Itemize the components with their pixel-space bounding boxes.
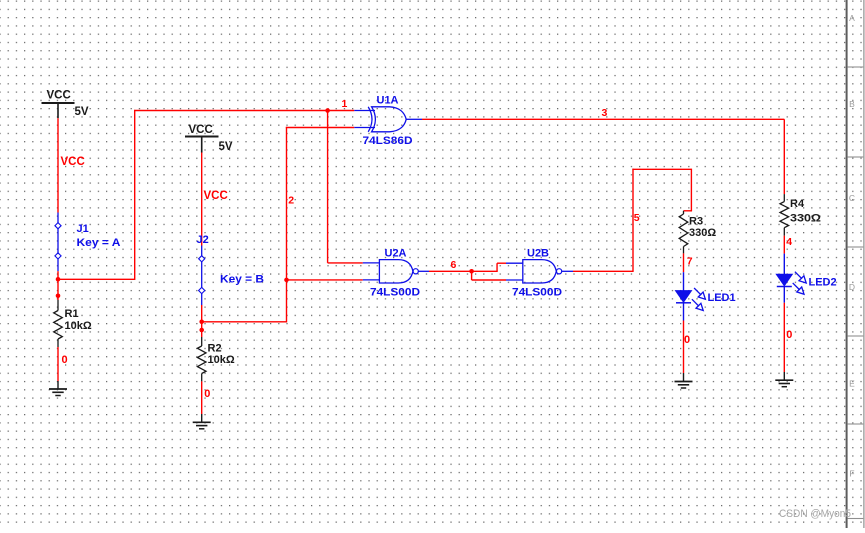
svg-text:LED1: LED1 xyxy=(708,292,736,304)
svg-text:74LS00D: 74LS00D xyxy=(512,287,562,299)
svg-text:Key = A: Key = A xyxy=(77,237,121,249)
svg-text:2: 2 xyxy=(288,195,294,207)
wire J2 to node B xyxy=(201,305,203,337)
node B junction (net 2 tap) xyxy=(199,320,204,325)
wire net3 vertical down to R4 xyxy=(783,119,785,194)
svg-text:U2A: U2A xyxy=(385,248,407,260)
wire VCC V1 to switch J1 xyxy=(57,118,59,212)
wire net1 top horizontal to U1A input xyxy=(134,110,354,112)
wire net6 drop to U2B bottom input xyxy=(471,271,473,280)
svg-text:U1A: U1A xyxy=(377,94,399,106)
svg-text:0: 0 xyxy=(786,329,792,341)
svg-text:J2: J2 xyxy=(197,234,209,246)
wire net6 from U2A output xyxy=(429,270,498,272)
svg-text:0: 0 xyxy=(684,334,690,346)
svg-text:R4: R4 xyxy=(790,198,805,210)
node A junction (net 1 tap) xyxy=(56,277,61,282)
LED LED2 xyxy=(776,254,806,303)
svg-text:5: 5 xyxy=(634,212,640,224)
svg-text:1: 1 xyxy=(342,98,348,110)
resistor R1 xyxy=(54,300,63,347)
svg-text:3: 3 xyxy=(602,107,608,119)
wire net4 R4 to LED2 xyxy=(783,236,785,254)
wire net5 jog into R3 xyxy=(684,210,693,212)
svg-text:R1: R1 xyxy=(65,308,79,320)
svg-text:D: D xyxy=(849,282,855,292)
svg-text:6: 6 xyxy=(451,259,457,271)
resistor R4 xyxy=(780,194,789,236)
svg-text:VCC: VCC xyxy=(47,90,71,102)
power symbol VCC V1 xyxy=(42,90,75,119)
wire net5 down to R3 xyxy=(690,169,692,211)
resistor R3 xyxy=(679,211,688,254)
power symbol VCC V2 xyxy=(185,124,219,153)
wire net1 horizontal from J1 node xyxy=(58,278,135,280)
svg-text:5V: 5V xyxy=(75,106,89,118)
svg-text:0: 0 xyxy=(204,388,210,400)
svg-text:10kΩ: 10kΩ xyxy=(65,320,92,332)
wire R1 to ground (net 0) xyxy=(57,347,59,381)
wire VCC V2 to switch J2 xyxy=(201,153,203,246)
svg-text:10kΩ: 10kΩ xyxy=(208,354,235,366)
svg-text:5V: 5V xyxy=(219,141,233,153)
svg-text:VCC: VCC xyxy=(61,156,85,168)
svg-text:F: F xyxy=(849,469,854,479)
wire net2 to U2A bottom input xyxy=(287,279,363,281)
wire net6 step up to U2B top input xyxy=(496,263,498,271)
ground below LED2 xyxy=(775,372,793,387)
svg-text:U2B: U2B xyxy=(527,248,549,260)
switch J2 xyxy=(199,246,205,306)
ground below R1 xyxy=(49,381,67,396)
op XOR gate U1A 74LS86D xyxy=(354,107,422,132)
wire net1 vertical riser xyxy=(134,110,136,280)
wire net2 top horizontal to U1A lower input xyxy=(286,127,354,129)
svg-text:330Ω: 330Ω xyxy=(689,227,716,239)
svg-text:R3: R3 xyxy=(689,216,703,228)
node junction above R1 xyxy=(56,294,61,299)
node junction net1 to U2A branch xyxy=(325,108,330,113)
node junction above R2 xyxy=(199,328,204,333)
svg-text:74LS86D: 74LS86D xyxy=(363,135,413,147)
LED LED1 xyxy=(676,272,706,320)
svg-text:LED2: LED2 xyxy=(809,277,837,289)
sheet border row letters xyxy=(849,13,855,479)
wire net7 R3 to LED1 xyxy=(683,253,685,272)
node junction net6 xyxy=(469,269,474,274)
switch J1 xyxy=(55,213,61,272)
wire net5 from U2B output xyxy=(573,270,633,272)
svg-text:CSDN @Myon5: CSDN @Myon5 xyxy=(779,508,851,520)
svg-text:4: 4 xyxy=(786,236,792,248)
svg-text:VCC: VCC xyxy=(204,190,228,202)
ground below R2 xyxy=(193,414,211,429)
wire J1 to node A xyxy=(57,271,59,300)
node junction net2 to U2A branch xyxy=(284,278,289,283)
svg-text:C: C xyxy=(849,193,855,203)
sheet border right strip xyxy=(846,0,865,528)
wire R2 to ground (net 0) xyxy=(201,381,203,414)
wire net2 horizontal from J2 node xyxy=(202,321,287,323)
wire net5 vertical up xyxy=(632,169,634,272)
svg-text:7: 7 xyxy=(687,256,693,268)
svg-text:VCC: VCC xyxy=(189,124,213,136)
svg-text:A: A xyxy=(849,13,855,23)
wire LED1 to ground xyxy=(683,321,685,374)
svg-text:74LS00D: 74LS00D xyxy=(370,287,420,299)
resistor R2 xyxy=(197,337,206,381)
wire net2 vertical riser xyxy=(286,127,288,323)
svg-text:B: B xyxy=(849,99,855,109)
wire LED2 to ground xyxy=(783,303,785,372)
NAND gate U2B 74LS00D xyxy=(506,260,573,283)
wire net3 horizontal xyxy=(422,118,784,120)
svg-text:0: 0 xyxy=(62,354,68,366)
svg-text:J1: J1 xyxy=(77,223,89,235)
svg-text:330Ω: 330Ω xyxy=(790,212,821,224)
svg-text:Key = B: Key = B xyxy=(220,274,264,286)
wire net5 top horizontal xyxy=(632,168,691,170)
svg-text:E: E xyxy=(849,379,855,389)
wire net1 drop to U2A top input xyxy=(327,111,329,263)
NAND gate U2A 74LS00D xyxy=(363,260,429,283)
svg-text:R2: R2 xyxy=(208,343,222,355)
ground below LED1 xyxy=(675,373,693,388)
